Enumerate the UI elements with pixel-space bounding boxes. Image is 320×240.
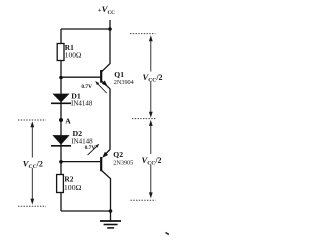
svg-text:2N3904: 2N3904 (114, 79, 134, 86)
svg-text:Q2: Q2 (113, 150, 123, 159)
svg-text:R2: R2 (64, 174, 73, 183)
svg-text:0.7V: 0.7V (85, 145, 96, 151)
svg-text:Q1: Q1 (114, 70, 124, 79)
svg-text:100Ω: 100Ω (65, 51, 82, 60)
svg-text:+VCC: +VCC (98, 4, 115, 16)
svg-text:A: A (65, 116, 71, 125)
svg-text:2N3905: 2N3905 (113, 160, 133, 167)
svg-text:0.7V: 0.7V (81, 84, 92, 90)
svg-text:D2: D2 (73, 129, 83, 138)
svg-text:IN4148: IN4148 (71, 100, 93, 108)
svg-text:100Ω: 100Ω (64, 183, 82, 192)
